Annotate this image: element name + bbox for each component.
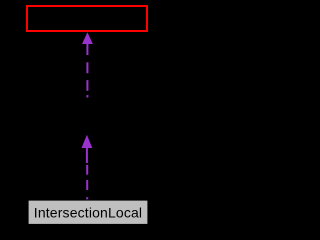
node N1: truncated class box (red border, black interior) [27,6,147,31]
wire dash of E2 [86,180,88,190]
wire dash stub of E1 [86,95,88,97]
arrowhead of E2 [82,135,93,148]
wire dash of E1 [86,62,88,73]
wire dash stub of E2 [86,197,88,199]
svg-text:IntersectionLocal: IntersectionLocal [34,204,142,220]
wire stem of E1 [86,44,88,55]
arrowhead of E1 [82,32,93,44]
wire dash of E2 [86,165,88,175]
wire dash of E1 [86,80,88,91]
node N2: current class box IntersectionLocal (grey fill) [29,201,148,224]
wire stem of E2 [86,148,88,163]
